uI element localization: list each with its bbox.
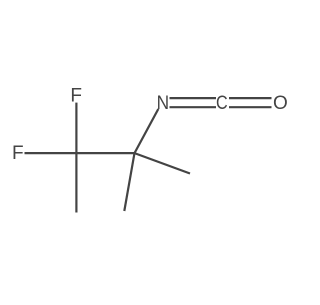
svg-text:C: C — [216, 92, 228, 114]
wire: bond C1-CH3 down — [75, 153, 77, 212]
wire: double bond N=C upper line — [170, 97, 217, 99]
svg-text:O: O — [273, 93, 288, 114]
wire: double bond C=O lower line — [229, 106, 272, 108]
wire: double bond N=C lower line — [170, 106, 217, 108]
wire: bond C2-CH3 down-left — [124, 153, 134, 211]
wire: bond C1-F1 vertical — [75, 103, 77, 154]
wire: double bond C=O upper line — [229, 97, 272, 99]
wire: bond C2-N diagonal — [135, 109, 159, 153]
wire: bond C1-C2 — [76, 152, 134, 154]
svg-text:F: F — [70, 86, 82, 107]
wire: bond C2-CH3 right — [135, 153, 191, 173]
svg-text:N: N — [157, 92, 169, 113]
wire: bond C1-F2 horizontal — [25, 152, 77, 154]
svg-text:F: F — [12, 143, 24, 164]
